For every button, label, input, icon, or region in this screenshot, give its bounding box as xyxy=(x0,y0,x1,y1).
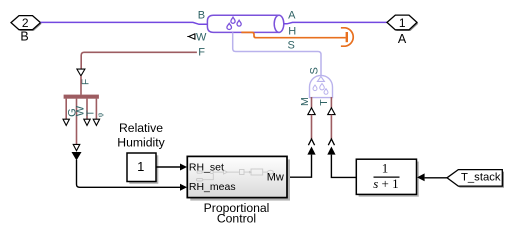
svg-text:φ: φ xyxy=(98,112,105,117)
wire: F triangle to sensor bar xyxy=(80,76,82,95)
svg-text:S: S xyxy=(309,67,321,74)
svg-text:F: F xyxy=(81,79,92,85)
svg-text:2: 2 xyxy=(22,16,29,30)
svg-text:Control: Control xyxy=(217,211,256,225)
wire: Transfer Fcn output to T xyxy=(331,155,356,178)
arrowhead T (Simulink signal into T) xyxy=(327,147,335,155)
pipe droplet 1 xyxy=(231,17,235,23)
svg-text:RH_set: RH_set xyxy=(189,161,224,173)
svg-text:1: 1 xyxy=(137,159,144,174)
port triangle G (hollow, down) xyxy=(63,119,69,125)
humidifier block (dome with droplets) xyxy=(310,75,333,97)
svg-text:A: A xyxy=(398,32,407,46)
wire: pipe H to cap (thermal, orange) xyxy=(241,32,345,37)
pipe droplet 3 xyxy=(227,23,232,29)
humidifier droplet left xyxy=(313,85,317,91)
wire: sensor phi stub xyxy=(95,99,97,119)
svg-text:Humidity: Humidity xyxy=(117,135,165,149)
wire: sensor T stub xyxy=(86,99,88,119)
svg-text:s + 1: s + 1 xyxy=(373,176,398,191)
wire: humidifier M stub (physical signal) xyxy=(311,97,313,108)
svg-text:B: B xyxy=(198,10,205,22)
port triangle T (hollow, up) xyxy=(328,108,335,115)
svg-text:H: H xyxy=(288,25,296,37)
svg-text:1: 1 xyxy=(399,16,406,30)
port triangle F (hollow, down) xyxy=(77,69,85,76)
humidifier droplet mid xyxy=(320,84,325,90)
arrowhead into RH_meas xyxy=(180,184,187,191)
wire: T physical signal line xyxy=(330,115,332,139)
svg-text:1: 1 xyxy=(382,161,389,176)
svg-text:M: M xyxy=(299,97,311,106)
arrowhead into Transfer Fcn xyxy=(417,173,425,181)
port triangle T2 (hollow, down) xyxy=(84,119,90,125)
port B (Connection Port 2) xyxy=(11,16,42,31)
chevron T (PS line end) xyxy=(328,139,334,145)
port A (Connection Port 1) xyxy=(387,15,418,31)
svg-text:T: T xyxy=(86,110,97,116)
sensor block (measurement manifold bar) xyxy=(64,95,99,99)
wire: port B to pipe (moist air, purple) xyxy=(41,22,209,24)
port triangle M (hollow, up) xyxy=(308,108,315,115)
wire: T_stack to Transfer Fcn xyxy=(425,177,447,179)
wire: sensor G stub xyxy=(65,99,67,119)
constant block "1" xyxy=(127,153,158,184)
wire: constant to RH_set xyxy=(156,166,180,168)
svg-text:RH_meas: RH_meas xyxy=(189,181,236,193)
arrowhead into RH_set xyxy=(180,164,187,171)
wire: pipe A to port 1 xyxy=(284,22,387,23)
wire: sensor W stub xyxy=(76,99,78,145)
wire: humidifier T stub (physical signal) xyxy=(330,97,332,108)
svg-text:Mw: Mw xyxy=(267,172,284,184)
svg-text:F: F xyxy=(198,46,205,58)
svg-text:W: W xyxy=(196,32,207,44)
pipe block (Pipe MA) body xyxy=(207,15,283,32)
Proportional Control subsystem block xyxy=(187,156,290,200)
chevron M (PS line end) xyxy=(308,139,314,145)
Transfer Fcn block 1/(s+1) xyxy=(356,159,419,197)
label W (pipe W port, unconnected marker) xyxy=(187,32,207,44)
wire: Mw signal from Proportional Control to M xyxy=(287,155,312,178)
wire: pipe S to humidifier S (light lavender) xyxy=(233,32,321,75)
svg-text:T: T xyxy=(318,99,330,106)
svg-text:T_stack: T_stack xyxy=(461,171,501,183)
wire: pipe F port to sensor (physical signal, maroon) xyxy=(81,52,197,69)
wire: W signal to RH_meas xyxy=(77,160,181,187)
svg-text:A: A xyxy=(288,10,296,22)
wire: M physical signal line xyxy=(311,115,313,139)
pipe droplet 2 xyxy=(237,20,241,26)
input port T_stack xyxy=(447,170,504,188)
inner preview of Proportional Control xyxy=(196,169,273,181)
port triangle phi (hollow, down) xyxy=(93,119,99,125)
arrowhead W (Simulink signal from W) xyxy=(72,152,82,161)
svg-text:S: S xyxy=(288,40,295,52)
port triangle W (hollow, down) xyxy=(73,144,80,150)
svg-text:B: B xyxy=(20,30,28,44)
svg-text:Relative: Relative xyxy=(119,121,163,135)
humidifier droplet right xyxy=(324,89,328,95)
arrowhead M (Simulink signal into M) xyxy=(307,147,315,155)
cap (thermal insulation cap) on H xyxy=(341,28,353,46)
